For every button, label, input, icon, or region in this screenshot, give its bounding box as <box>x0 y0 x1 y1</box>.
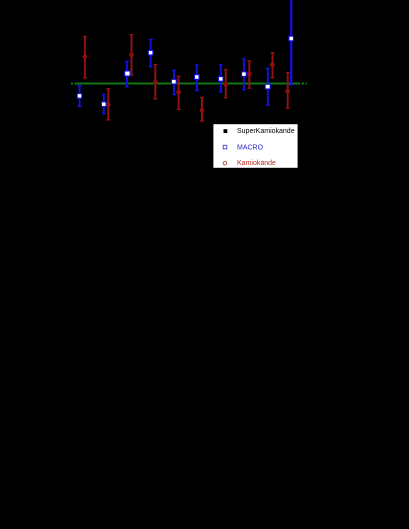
svg-text:Kamiokande: Kamiokande <box>237 160 276 167</box>
svg-text:SuperKamiokande: SuperKamiokande <box>237 128 295 135</box>
legend text <box>237 128 295 167</box>
svg-text:MACRO: MACRO <box>237 144 264 151</box>
blue bar bin5 <box>172 70 176 94</box>
blue bar bin2 <box>102 94 106 113</box>
blue bar bin10 (tall, off top) <box>289 0 293 85</box>
red bar bin1 <box>83 36 87 78</box>
red bar bin4 <box>153 65 157 99</box>
red bar bin2 <box>106 89 110 120</box>
blue bar bin8 <box>242 59 246 90</box>
legend box <box>213 124 298 169</box>
red bar bin6 <box>200 97 204 121</box>
Kamiokande red error bars <box>83 35 290 121</box>
red bar bin5 <box>177 76 181 109</box>
red bar bin9 <box>271 53 275 78</box>
blue bar bin9 <box>266 68 270 105</box>
blue bar bin3 <box>125 61 129 87</box>
legend marker: SuperKamiokande filled black square <box>224 129 228 133</box>
red bar bin3 <box>130 35 134 75</box>
blue bar bin4 <box>149 39 153 66</box>
Kamiokande circles <box>83 53 291 113</box>
MACRO / SuperK square markers (white fill, blue edge) <box>77 36 293 106</box>
blue bar bin1 <box>78 86 82 107</box>
red bar bin7 <box>224 70 228 98</box>
reference line y=1 (green) <box>71 83 307 85</box>
red bar bin10 <box>286 73 290 109</box>
blue bar bin6 <box>195 65 199 91</box>
red bar bin8 <box>247 61 251 88</box>
legend marker: MACRO open blue square <box>223 145 227 149</box>
legend marker: Kamiokande open red circle <box>223 161 227 165</box>
blue bar bin7 <box>219 65 223 92</box>
MACRO blue error bars <box>78 0 294 114</box>
